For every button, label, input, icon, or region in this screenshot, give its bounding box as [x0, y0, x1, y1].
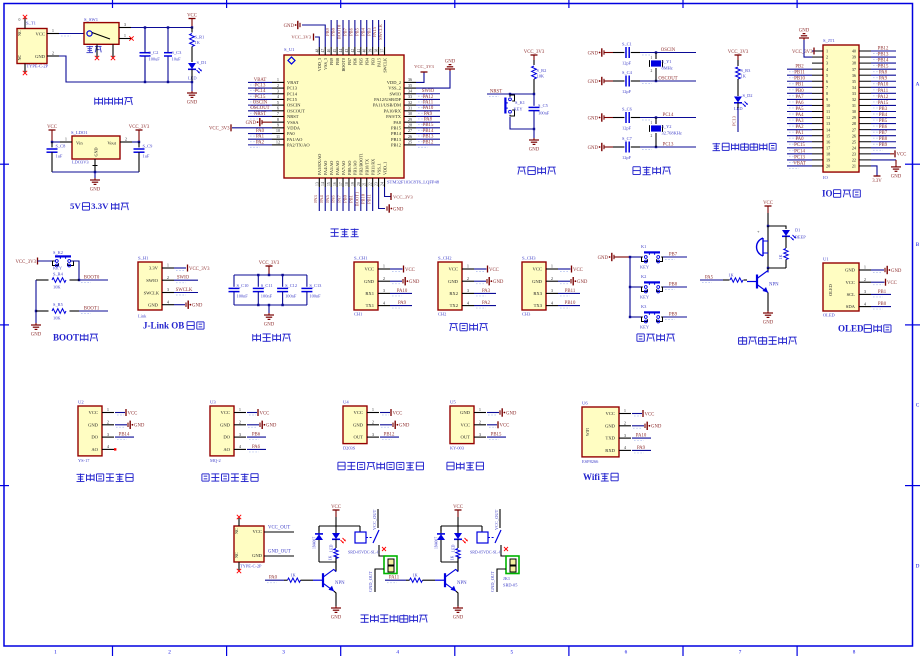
svg-text:6: 6 — [826, 79, 828, 84]
svg-text:S_CH2: S_CH2 — [438, 256, 452, 261]
svg-text:43: 43 — [345, 49, 349, 53]
pin 14 U1 bottom — [324, 178, 326, 187]
svg-text:PB15: PB15 — [423, 123, 434, 128]
svg-text:27: 27 — [852, 127, 856, 132]
crystal S_Y1 8MHz — [650, 53, 673, 82]
wire net PB15 JT1 right — [871, 68, 896, 70]
wire net PA12 JT1 right — [871, 98, 896, 100]
wire net PB0 bottom — [348, 187, 350, 211]
GND earth JT1 pin2 — [804, 40, 812, 57]
svg-text:S_K2: S_K2 — [53, 250, 63, 255]
pin 21 JT1 — [859, 165, 871, 167]
pin 29 JT1 — [859, 117, 871, 119]
wire net SWIO — [416, 93, 440, 95]
wire net PA2 JT1 left — [787, 129, 812, 131]
pin 1 JT1 — [812, 50, 823, 52]
svg-text:37: 37 — [381, 49, 385, 53]
svg-text:33: 33 — [852, 91, 856, 96]
svg-text:NPN: NPN — [335, 581, 345, 586]
svg-text:PC15: PC15 — [255, 95, 266, 100]
svg-text:VCC_OUT: VCC_OUT — [268, 526, 290, 531]
svg-text:LED: LED — [330, 544, 334, 552]
svg-text:PB12: PB12 — [384, 433, 395, 438]
wire net PC13 JT1 left — [787, 159, 812, 161]
wire SW1 pin3 to VCC rail — [131, 27, 192, 29]
svg-text:VCC: VCC — [449, 267, 458, 272]
svg-text:GND: GND — [891, 174, 902, 179]
svg-text:ESP8266: ESP8266 — [582, 459, 599, 464]
svg-text:TX1: TX1 — [366, 303, 375, 308]
pin 2 H1 net SWIO — [162, 279, 174, 281]
svg-text:S_CH1: S_CH1 — [354, 256, 368, 261]
svg-text:S_C4: S_C4 — [622, 70, 633, 75]
svg-text:33: 33 — [408, 94, 412, 99]
resistor S_R1 1K — [190, 28, 205, 63]
regulator S_LDO1 LDO3V3 — [71, 130, 120, 165]
resistor S_R5 10K — [36, 302, 79, 320]
svg-text:10: 10 — [276, 128, 280, 133]
svg-text:2: 2 — [651, 69, 653, 73]
svg-text:PA15: PA15 — [376, 58, 381, 67]
svg-text:PA2/TX/AO: PA2/TX/AO — [287, 142, 310, 147]
pin 31 U1 — [404, 110, 416, 112]
pin 3 SW1 — [119, 27, 131, 29]
key circuit 按键电路 — [598, 244, 687, 341]
svg-text:10K: 10K — [53, 285, 61, 290]
resistor S_R3 1K — [736, 60, 751, 96]
wire net PA8 JT1 right — [871, 74, 896, 76]
pin 13 U1 bottom — [318, 178, 320, 187]
svg-text:PA3/RX/AO: PA3/RX/AO — [317, 154, 322, 175]
pin 39 JT1 — [859, 56, 871, 58]
svg-text:38: 38 — [852, 61, 856, 66]
svg-text:8: 8 — [853, 650, 856, 656]
serial port circuits — [354, 256, 588, 331]
capacitor S_C13 100nF — [301, 275, 322, 305]
svg-text:PA0: PA0 — [795, 137, 804, 142]
svg-text:S_U1: S_U1 — [284, 47, 295, 52]
no-connect X top — [237, 515, 241, 519]
svg-text:3.3V: 3.3V — [91, 201, 109, 211]
svg-text:PB8: PB8 — [669, 282, 678, 287]
pin 16 U1 bottom — [336, 178, 338, 187]
svg-text:GND: GND — [31, 333, 42, 338]
pin 1 U1 — [272, 81, 284, 83]
pin 37 U1 top — [384, 47, 386, 55]
wire net VBAT JT1 left — [787, 165, 812, 167]
svg-text:0: 0 — [19, 18, 21, 22]
wire net OSCIN — [640, 52, 696, 54]
GND bar at U1 VSSA pin 8 — [261, 120, 263, 124]
svg-text:PB0: PB0 — [795, 89, 804, 94]
svg-text:U3: U3 — [210, 400, 216, 405]
J-Link OB interface S_H1 — [138, 256, 162, 319]
pin 1 U5 GND — [474, 412, 486, 414]
caption 声光报警电路 — [739, 336, 797, 344]
svg-text:S_R2: S_R2 — [537, 68, 547, 73]
serial header S_CH3 — [522, 256, 546, 317]
pin 14 JT1 — [812, 129, 823, 131]
push button K3 KEY — [630, 304, 663, 330]
pin 47 U1 top — [324, 47, 326, 55]
wire T1 GND to bottom rail — [59, 56, 192, 82]
svg-text:1: 1 — [372, 407, 374, 412]
svg-text:100nF: 100nF — [285, 294, 297, 299]
svg-text:CH2: CH2 — [438, 312, 446, 317]
svg-text:S_C9: S_C9 — [143, 144, 154, 149]
caption 霍尔模块 — [447, 462, 484, 470]
svg-text:U5: U5 — [450, 400, 456, 405]
wire net PA2 — [248, 144, 272, 146]
svg-text:1: 1 — [277, 77, 279, 82]
connector S_T1 TYPE-C-2P — [17, 18, 49, 72]
wire net BOOT1 bottom — [360, 187, 362, 211]
svg-text:TYPE-C-2P: TYPE-C-2P — [240, 564, 262, 569]
svg-text:23: 23 — [852, 151, 856, 156]
svg-text:VCC: VCC — [763, 201, 773, 206]
svg-text:10K: 10K — [53, 316, 61, 321]
caption 串口电路 — [450, 323, 488, 331]
VCC_3V3 port bottom of U1 — [385, 187, 391, 197]
pin 19 JT1 — [812, 159, 823, 161]
caption 复位电路 — [518, 167, 556, 175]
pin 8 U1 — [272, 121, 284, 123]
svg-text:32.768KHz: 32.768KHz — [662, 131, 682, 136]
relay coil box — [355, 532, 366, 543]
svg-text:1K: 1K — [741, 74, 747, 79]
GND earth at U1 VSS_2 pin 35 — [416, 71, 450, 88]
svg-text:GND: GND — [331, 616, 342, 621]
bottom rail wire — [52, 171, 139, 173]
svg-text:GND: GND — [399, 424, 410, 429]
capacitor S_C12 100nF — [277, 275, 297, 305]
pin 2 U6 GND — [619, 425, 631, 427]
emitter wire to ground — [334, 591, 336, 606]
svg-text:PA12: PA12 — [878, 95, 889, 100]
pin 4 H1 to GND — [162, 304, 174, 306]
pin 3 U5 OUT — [474, 436, 486, 438]
GND earth JT1 pin22 — [871, 159, 896, 161]
svg-text:VCC_3V3: VCC_3V3 — [189, 267, 210, 272]
svg-text:VCC: VCC — [645, 412, 655, 417]
pin 7 JT1 — [812, 86, 823, 88]
svg-text:12: 12 — [276, 140, 280, 145]
screw terminal connector — [384, 556, 397, 574]
svg-text:VDDA: VDDA — [287, 125, 301, 130]
svg-text:17: 17 — [826, 145, 830, 150]
pin 45 U1 top — [336, 47, 338, 55]
svg-text:GND: GND — [799, 29, 810, 34]
wire net PB5 JT1 right — [871, 123, 896, 125]
svg-text:PB14: PB14 — [878, 59, 889, 64]
filter circuit 滤波电路 — [229, 261, 323, 342]
crystal S_Y2 32.768KHz — [650, 118, 682, 148]
svg-text:OSCOUT: OSCOUT — [287, 108, 305, 113]
pin 1 U6 VCC — [619, 413, 631, 415]
svg-text:PC14: PC14 — [255, 89, 266, 94]
resistor 1K vertical relay — [328, 549, 339, 563]
svg-text:PA0: PA0 — [256, 129, 265, 134]
svg-text:KEY: KEY — [53, 266, 63, 271]
svg-text:1: 1 — [107, 407, 109, 412]
svg-text:VCC: VCC — [489, 268, 499, 273]
pin 33 JT1 — [859, 92, 871, 94]
svg-text:VDD_1: VDD_1 — [382, 162, 387, 175]
svg-text:2: 2 — [277, 83, 279, 88]
pin 38 U1 top — [378, 47, 380, 55]
svg-text:SWIO: SWIO — [390, 91, 402, 96]
svg-text:PB7: PB7 — [669, 252, 678, 257]
svg-text:VCC_3V3: VCC_3V3 — [393, 194, 413, 199]
svg-text:VCC: VCC — [606, 411, 615, 416]
svg-text:NC: NC — [17, 54, 22, 60]
wire net PB10 JT1 left — [787, 80, 812, 82]
pin 35 JT1 — [859, 80, 871, 82]
pin 1 U2 VCC — [102, 412, 114, 414]
wire net PB9 JT1 right — [871, 147, 896, 149]
GND bar top of U1 — [302, 25, 325, 47]
caption 程序运行指示灯 — [713, 143, 777, 151]
wire net PA4 bottom — [324, 187, 326, 211]
pin 34 U1 — [404, 93, 416, 95]
reset circuit 复位电路 — [487, 50, 556, 175]
connector TYPE-C-2P output — [234, 518, 264, 570]
pin 27 U1 — [404, 133, 416, 135]
svg-text:1: 1 — [239, 407, 241, 412]
wire net PC13 — [737, 108, 739, 132]
svg-text:KEY: KEY — [640, 265, 650, 270]
svg-text:KEY: KEY — [640, 295, 650, 300]
relay driver 2 — [406, 505, 519, 621]
svg-text:22: 22 — [852, 158, 856, 163]
svg-text:PB10/TX: PB10/TX — [365, 159, 370, 175]
svg-text:PA5: PA5 — [705, 275, 714, 280]
capacitor S_C3 10uF — [164, 28, 182, 83]
svg-text:GND: GND — [284, 24, 295, 29]
svg-text:3: 3 — [624, 433, 626, 438]
ground GND relay — [457, 606, 459, 608]
svg-text:GND: GND — [252, 553, 263, 558]
svg-text:GND: GND — [651, 425, 662, 430]
relay control circuit — [234, 505, 519, 623]
svg-text:12pF: 12pF — [622, 126, 632, 131]
VCC port JT1 pin23 — [871, 153, 890, 155]
caption 按键电路 — [637, 334, 675, 342]
svg-text:3: 3 — [826, 61, 828, 66]
svg-text:3.3V: 3.3V — [149, 266, 159, 271]
svg-text:2: 2 — [479, 420, 481, 425]
svg-text:41: 41 — [357, 49, 361, 53]
svg-text:PA1: PA1 — [795, 131, 804, 136]
svg-text:GND: GND — [148, 303, 159, 308]
svg-text:1: 1 — [124, 33, 126, 38]
svg-text:1: 1 — [65, 137, 67, 142]
wire net VBAT — [248, 81, 272, 83]
svg-text:PB15: PB15 — [391, 125, 402, 130]
pin 16 JT1 — [812, 141, 823, 143]
GND bar left — [613, 255, 615, 259]
svg-text:J-Link OB: J-Link OB — [143, 320, 184, 330]
base resistor 1K — [723, 273, 747, 283]
caption IO拓展口 — [822, 188, 860, 198]
wire net NRST — [248, 115, 272, 117]
svg-text:2: 2 — [52, 51, 54, 56]
wire net PB14 JT1 right — [871, 62, 896, 64]
svg-text:12pF: 12pF — [622, 155, 632, 160]
svg-text:PA2: PA2 — [256, 140, 265, 145]
svg-text:S_C13: S_C13 — [309, 283, 322, 288]
svg-text:31: 31 — [408, 106, 412, 111]
pin 8 JT1 — [812, 92, 823, 94]
svg-text:SRD-05VDC-SL-C: SRD-05VDC-SL-C — [470, 550, 502, 555]
capacitor S_C6 12pF — [613, 107, 640, 131]
svg-text:VCC: VCC — [260, 411, 270, 416]
pin 3 U3 DO — [234, 436, 246, 438]
svg-text:PB2: PB2 — [795, 65, 804, 70]
svg-text:1N4007: 1N4007 — [313, 537, 317, 549]
svg-text:PC15: PC15 — [794, 143, 805, 148]
pin 23 U1 bottom — [378, 178, 380, 187]
svg-text:BOOT0: BOOT0 — [341, 58, 346, 72]
program run indicator LED circuit — [713, 50, 777, 151]
svg-text:8: 8 — [826, 91, 828, 96]
svg-text:1K: 1K — [290, 573, 296, 578]
pin 4 U2 AO — [102, 448, 114, 450]
wire net PB13 JT1 right — [871, 56, 896, 58]
svg-text:3: 3 — [282, 650, 285, 656]
relay switch — [366, 509, 385, 560]
svg-text:GND: GND — [845, 268, 856, 273]
svg-text:1: 1 — [651, 56, 653, 60]
pin 25 U1 — [404, 144, 416, 146]
svg-text:1: 1 — [479, 407, 481, 412]
svg-text:OLED: OLED — [823, 313, 835, 318]
svg-text:S_C12: S_C12 — [285, 283, 297, 288]
svg-text:PB9: PB9 — [669, 312, 678, 317]
pin 1 LDO — [60, 141, 72, 143]
ground GND relay — [335, 606, 337, 608]
svg-text:VBAT: VBAT — [287, 80, 299, 85]
LED relay — [330, 526, 346, 552]
svg-text:39: 39 — [369, 49, 373, 53]
wire net PA10 — [416, 110, 440, 112]
pin 30 JT1 — [859, 111, 871, 113]
wire net PB8 — [663, 286, 687, 288]
wire net PB14 — [416, 133, 440, 135]
svg-text:PA10: PA10 — [878, 83, 889, 88]
svg-text:VDD_3: VDD_3 — [317, 58, 322, 71]
push button S_K1 KEY — [505, 94, 525, 116]
wire net PB12 — [416, 144, 440, 146]
caption 电源电路 — [95, 97, 133, 105]
wire to C8 — [52, 141, 60, 143]
IO expansion port S_JT1 — [823, 38, 859, 180]
svg-text:9: 9 — [826, 97, 828, 102]
capacitor S_C10 100nF — [229, 275, 250, 305]
svg-text:S_C6: S_C6 — [622, 107, 633, 112]
no-connect X bottom — [237, 569, 241, 573]
3.3V port JT1 pin21 — [871, 166, 877, 176]
svg-text:PA6: PA6 — [331, 194, 336, 202]
wire net PA1 JT1 left — [787, 135, 812, 137]
svg-text:37: 37 — [852, 67, 856, 72]
svg-text:11: 11 — [826, 109, 830, 114]
svg-text:GND: GND — [35, 54, 46, 59]
svg-text:NRST: NRST — [490, 89, 502, 94]
svg-text:5: 5 — [511, 650, 514, 656]
OLED display module U1 — [823, 257, 859, 318]
pin 2 LDO — [120, 141, 132, 143]
caption 滤波电路 — [253, 333, 291, 341]
svg-text:PA6/AO: PA6/AO — [335, 161, 340, 175]
svg-text:PB7: PB7 — [879, 131, 888, 136]
svg-text:Link: Link — [138, 314, 147, 319]
pin 6 JT1 — [812, 80, 823, 82]
wire net PA8 — [416, 121, 440, 123]
GND bar for S_C6 — [603, 115, 605, 119]
svg-text:JK1: JK1 — [503, 576, 510, 581]
svg-text:S_C7: S_C7 — [622, 136, 633, 141]
svg-text:12: 12 — [826, 115, 830, 120]
svg-text:VSS_2: VSS_2 — [388, 86, 401, 91]
wire net PB6 top — [354, 20, 356, 47]
svg-text:TYPE-C-2P: TYPE-C-2P — [27, 64, 49, 69]
svg-text:SRD-05: SRD-05 — [503, 583, 518, 588]
svg-text:PC14: PC14 — [287, 91, 298, 96]
wire net PB13 — [416, 138, 440, 140]
svg-text:PA11: PA11 — [878, 89, 889, 94]
svg-text:S_JT1: S_JT1 — [823, 38, 835, 43]
svg-text:GND: GND — [264, 323, 275, 328]
pin 42 U1 top — [354, 47, 356, 55]
svg-text:PA4: PA4 — [319, 194, 324, 202]
svg-text:D1: D1 — [795, 228, 800, 233]
svg-text:S_C5: S_C5 — [538, 103, 549, 108]
ground GND — [35, 323, 37, 325]
svg-text:1K: 1K — [450, 555, 455, 560]
svg-text:GND: GND — [393, 207, 404, 212]
svg-text:PA12: PA12 — [423, 95, 434, 100]
svg-text:VSS_3: VSS_3 — [323, 58, 328, 70]
svg-text:PB11: PB11 — [565, 289, 576, 294]
svg-text:OLED: OLED — [838, 323, 864, 333]
svg-text:CH3: CH3 — [522, 312, 531, 317]
no-ERC X marker — [504, 547, 508, 551]
pin 1 OLED GND — [859, 269, 871, 271]
wire net PB10 bottom — [366, 187, 368, 211]
svg-text:PB6: PB6 — [252, 433, 261, 438]
svg-text:1: 1 — [624, 408, 626, 413]
no-connect X on T1 top pin — [23, 15, 27, 19]
svg-text:SWCLK: SWCLK — [378, 23, 383, 40]
svg-text:PA7/AO: PA7/AO — [341, 161, 346, 175]
caption 5V转3.3V电路 — [70, 201, 129, 211]
svg-text:38: 38 — [375, 49, 379, 53]
svg-text:10uF: 10uF — [172, 57, 182, 62]
svg-text:PB14: PB14 — [391, 131, 402, 136]
relay driver 1 — [284, 505, 397, 621]
pin 46 U1 top — [330, 47, 332, 55]
pin 27 JT1 — [859, 129, 871, 131]
pin 48 U1 top — [318, 47, 320, 55]
svg-text:28: 28 — [852, 121, 856, 126]
svg-text:40: 40 — [852, 49, 856, 54]
svg-text:VCC: VCC — [36, 32, 45, 37]
svg-text:VCC: VCC — [365, 267, 374, 272]
module U5 KY-003 — [450, 400, 474, 451]
pin 1 T1 VCC — [47, 33, 59, 35]
caption 主芯片 — [331, 228, 359, 236]
